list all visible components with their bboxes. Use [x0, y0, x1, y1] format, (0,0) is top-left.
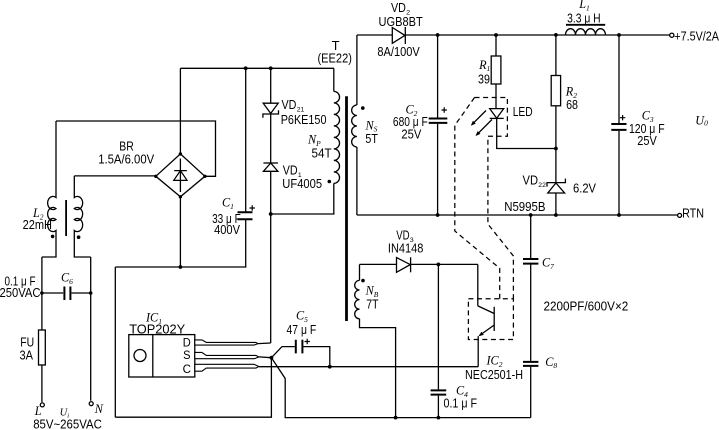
- svg-text:6.2V: 6.2V: [573, 181, 596, 196]
- output terminal +7.5V/2A: [670, 33, 674, 37]
- svg-text:1.5A/6.00V: 1.5A/6.00V: [98, 151, 154, 166]
- capacitor C6 0.1uF/250VAC: [42, 292, 91, 294]
- terminal L: [40, 403, 44, 407]
- svg-text:TOP202Y: TOP202Y: [129, 322, 185, 337]
- wire: drain vertical to TOP202 D: [270, 214, 272, 343]
- diode VD2 UGB8BT: [392, 28, 405, 44]
- wire: bridge bottom vertex to ground line: [179, 197, 181, 267]
- wire: C2 vertical: [437, 35, 439, 215]
- wire: C1 top connection: [245, 68, 247, 212]
- wire: clamp vertical from rail: [270, 68, 272, 214]
- wire: primary ground bottom rail to source: [115, 358, 271, 418]
- svg-text:C: C: [183, 362, 192, 376]
- junction dots secondary top rail: [436, 33, 440, 37]
- junction dot C5 to control line: [328, 365, 332, 369]
- capacitor C8 2200PF plates: [523, 362, 538, 366]
- inductor L2 right winding: [74, 176, 82, 237]
- Nb phase dot: [361, 279, 365, 283]
- bridge inner diode: [174, 159, 187, 193]
- wire: L2 right top to bridge left vertex: [74, 175, 156, 177]
- wire: primary winding top connection: [333, 68, 335, 91]
- wire: clamp bottom to primary winding bottom: [271, 183, 334, 214]
- svg-text:N: N: [94, 402, 104, 416]
- Ns phase dot: [361, 106, 365, 110]
- bridge rectifier BR diamond: [156, 154, 205, 197]
- capacitor C7 2200PF plates: [523, 259, 538, 264]
- L1 core line: [566, 24, 605, 26]
- wire: bridge top vertex to primary DC rail: [179, 68, 181, 154]
- LED light arrows: [472, 111, 492, 136]
- wire: N input vertical (neutral leg): [90, 257, 92, 401]
- wire: live leg fuse-to-terminal: [41, 365, 43, 402]
- dashed optical path left: [455, 98, 500, 299]
- svg-text:(EE22): (EE22): [318, 51, 352, 66]
- C1 plus sign: [250, 205, 255, 210]
- junction dot C4 top: [437, 263, 441, 267]
- LED of optocoupler: [490, 109, 504, 119]
- fuse FU 3A: [39, 330, 46, 365]
- wire: control line from TOP202 C pin to opto emitter: [259, 366, 478, 368]
- junction dot C6 left: [40, 291, 44, 295]
- IC1 lead C: [195, 364, 259, 371]
- svg-text:22mH: 22mH: [23, 217, 52, 232]
- wire: C1 bottom to primary ground line: [115, 220, 245, 267]
- svg-text:LED: LED: [513, 104, 533, 119]
- svg-text:25V: 25V: [401, 127, 421, 142]
- svg-text:25V: 25V: [637, 133, 657, 148]
- wire: secondary rail left corner to winding top: [356, 35, 358, 105]
- wire: L2 left top to bridge right vertex: [56, 121, 216, 176]
- wire: D lead to drain vertical: [258, 342, 271, 345]
- wire: source junction diagonal up to C5: [271, 347, 294, 358]
- IC1 mounting hole: [134, 350, 146, 362]
- junction dot bridge to ground line: [179, 265, 183, 269]
- svg-text:3A: 3A: [20, 347, 34, 362]
- wire: node to zener VD22: [555, 149, 557, 216]
- wire: R2 top connection: [555, 35, 557, 76]
- dashed optical path right/LED box: [475, 98, 514, 299]
- wire: primary ground left box edge: [114, 267, 116, 417]
- IC1 lead D: [195, 340, 258, 345]
- wire: RTN rail: [357, 214, 678, 216]
- resistor R2 68: [551, 76, 560, 106]
- inductor L1 3.3uH: [566, 29, 606, 35]
- C5 plus sign: [305, 339, 310, 344]
- wire: VD3 cathode line to opto collector corner: [411, 263, 478, 265]
- diode VD1 UF4005: [263, 162, 278, 164]
- svg-text:68: 68: [566, 97, 578, 112]
- wire: S lead to source junction: [259, 356, 272, 359]
- wire: LED cathode down and right to R2 bottom node: [497, 118, 556, 148]
- svg-text:RTN: RTN: [682, 206, 704, 221]
- transformer core bar: [345, 96, 348, 321]
- svg-text:3.3 μ H: 3.3 μ H: [567, 10, 601, 25]
- zener diode VD22 6.2V N5995B: [548, 183, 565, 193]
- optocoupler IC2 phototransistor: [478, 306, 494, 336]
- svg-text:54T: 54T: [312, 146, 332, 161]
- wire: secondary top rail to output: [405, 34, 670, 36]
- C2 plus sign: [442, 107, 447, 112]
- junction dot R2/LED/zener node: [554, 147, 558, 151]
- capacitor C5 47uF plates: [296, 340, 303, 354]
- svg-text:VD: VD: [523, 173, 539, 188]
- wire: C3 top connection: [618, 35, 620, 123]
- junction dot C6 right: [89, 291, 93, 295]
- wire: R1 bottom to LED: [495, 84, 497, 109]
- L2 phase dots: [51, 235, 55, 239]
- wire: opto emitter drop to control line: [477, 336, 479, 367]
- wire: C6 top stubs to choke: [42, 237, 91, 258]
- IC1 package tab divider: [152, 335, 154, 377]
- capacitor C4 0.1uF plates: [431, 390, 447, 394]
- junction dots bottom ground rail: [394, 416, 398, 420]
- wire: secondary top rail VD2 anode side: [357, 34, 392, 36]
- svg-text:P6KE150: P6KE150: [281, 112, 327, 127]
- svg-text:250VAC: 250VAC: [0, 285, 41, 300]
- wire: bottom right ground rail: [271, 358, 530, 418]
- junction dots RTN rail: [436, 213, 440, 217]
- capacitor C2 680uF/25V plates: [429, 119, 448, 123]
- wire: C7 C8 vertical from RTN: [530, 215, 532, 418]
- svg-text:2200PF/600V×2: 2200PF/600V×2: [544, 299, 629, 314]
- wire: secondary winding bottom to RTN rail: [356, 147, 358, 215]
- terminal N: [89, 402, 93, 406]
- wire: C4 vertical: [437, 264, 439, 417]
- wire: primary DC+ rail: [180, 67, 334, 69]
- svg-text:S: S: [183, 348, 190, 362]
- svg-text:22: 22: [538, 182, 546, 189]
- wire: VD3 anode line: [360, 263, 397, 265]
- svg-text:UGB8BT: UGB8BT: [379, 14, 423, 29]
- wire: opto collector drop: [477, 264, 479, 306]
- junction dot source S: [270, 356, 274, 360]
- svg-text:VD: VD: [391, 0, 406, 15]
- junction dots primary rail: [244, 66, 248, 70]
- dashed box around phototransistor: [468, 299, 513, 340]
- RTN terminal: [678, 213, 682, 217]
- svg-text:NEC2501-H: NEC2501-H: [465, 367, 523, 382]
- bridge vertex dots: [179, 152, 182, 155]
- svg-text:39: 39: [478, 71, 490, 86]
- wire: C5 right side down to control line: [303, 347, 330, 367]
- resistor R1 39: [491, 56, 501, 84]
- capacitor C1 33uF/400V plates: [238, 212, 253, 219]
- inductor L2 22mH common-mode choke left winding: [48, 121, 56, 237]
- junction dot clamp bottom: [269, 212, 273, 216]
- capacitor C3 120uF/25V plates: [611, 124, 626, 130]
- svg-text:5T: 5T: [365, 131, 378, 146]
- svg-text:IN4148: IN4148: [388, 241, 424, 256]
- svg-text:47 μ F: 47 μ F: [287, 322, 317, 337]
- wire: bias winding top to VD3 line: [359, 264, 361, 280]
- transformer secondary winding Ns: [352, 105, 357, 147]
- wire: R2 bottom to node: [555, 106, 557, 149]
- L2 core line: [65, 200, 67, 236]
- svg-text:UF4005: UF4005: [282, 176, 322, 191]
- svg-text:0.1 μ F: 0.1 μ F: [444, 395, 478, 410]
- IC1 TOP202Y package body: [129, 335, 195, 377]
- wire: bias winding bottom return: [360, 319, 396, 418]
- svg-text:85V~265VAC: 85V~265VAC: [33, 417, 102, 430]
- transformer T primary winding Np: [334, 91, 340, 183]
- svg-text:VD: VD: [282, 97, 297, 112]
- wire: C3 bottom to RTN: [618, 131, 620, 215]
- wire: L input vertical (live leg): [41, 257, 43, 330]
- svg-text:N5995B: N5995B: [504, 199, 545, 214]
- svg-text:7T: 7T: [366, 297, 378, 312]
- transformer bias winding Nb: [355, 280, 360, 318]
- IC1 lead S: [195, 352, 259, 358]
- TVS diode VD21 P6KE150: [263, 103, 278, 113]
- diode VD3 IN4148: [397, 258, 411, 273]
- Np phase dot: [328, 180, 332, 184]
- wire: R1 top connection: [495, 35, 497, 56]
- svg-text:400V: 400V: [214, 222, 240, 237]
- svg-text:8A/100V: 8A/100V: [377, 44, 420, 59]
- svg-text:+7.5V/2A: +7.5V/2A: [674, 28, 719, 43]
- C3 plus sign: [620, 115, 625, 120]
